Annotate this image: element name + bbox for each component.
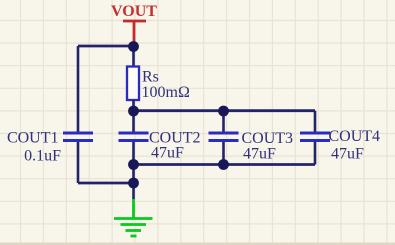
wire: lower-left rail <box>78 182 134 185</box>
svg-text:COUT4: COUT4 <box>329 128 381 145</box>
svg-text:COUT1: COUT1 <box>7 130 59 147</box>
value 47uF (COUT4) <box>331 146 364 163</box>
ground <box>114 199 153 236</box>
value 47uF (COUT2) <box>151 145 184 162</box>
value 0.1uF <box>24 148 61 165</box>
junction at lower-left rail / ground <box>128 178 139 189</box>
svg-text:VOUT: VOUT <box>111 3 157 20</box>
soft bottom edge of photo <box>0 243 395 245</box>
wire: left branch vertical (top) <box>77 46 80 132</box>
label COUT3 <box>242 130 294 147</box>
wire: resistor to mid rail <box>132 100 135 111</box>
svg-text:47uF: 47uF <box>151 145 184 162</box>
svg-text:47uF: 47uF <box>331 146 364 163</box>
capacitor COUT4 <box>300 111 330 165</box>
label Rs <box>142 69 159 86</box>
junction at COUT3 top <box>218 106 229 117</box>
junction at resistor bottom / mid rail <box>128 106 139 117</box>
capacitor COUT3 <box>209 111 239 165</box>
label COUT1 <box>7 130 59 147</box>
label COUT2 <box>149 130 201 147</box>
svg-text:COUT3: COUT3 <box>242 130 294 147</box>
capacitor COUT1 <box>63 133 93 141</box>
wire: bottom rail <box>134 163 316 166</box>
wire: COUT1 bottom lead <box>77 142 80 183</box>
label COUT4 <box>329 128 381 145</box>
svg-text:Rs: Rs <box>142 69 159 86</box>
wire: top rail <box>78 45 134 48</box>
value 47uF (COUT3) <box>243 146 276 163</box>
value 100mΩ <box>142 84 190 101</box>
wire: VOUT junction down to resistor <box>132 44 135 67</box>
capacitor COUT2 <box>119 111 149 165</box>
power port VOUT bar symbol <box>123 21 146 43</box>
resistor Rs <box>127 67 139 101</box>
wire: mid rail <box>134 109 316 112</box>
junction at COUT3 bottom <box>218 159 229 170</box>
svg-text:0.1uF: 0.1uF <box>24 148 61 165</box>
svg-text:47uF: 47uF <box>243 146 276 163</box>
junction at VOUT / top rail <box>128 41 139 52</box>
wire: ground drop <box>132 165 135 200</box>
power port VOUT label <box>111 3 157 20</box>
svg-text:100mΩ: 100mΩ <box>142 84 190 101</box>
junction at COUT2 bottom <box>128 159 139 170</box>
